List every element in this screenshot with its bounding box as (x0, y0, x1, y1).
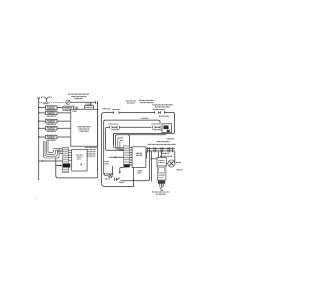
harness wire W3 (118, 138, 123, 148)
wire harness U4 (48, 141, 54, 153)
LEFT SECTION: surface unit wiring (38, 94, 98, 180)
label box A (63, 106, 74, 110)
infinite switch S4 row (38, 126, 71, 131)
wire connector band to fan (112, 166, 114, 175)
arrow into ground bar (56, 165, 63, 167)
wire bottom run to door lock (121, 180, 148, 182)
infinite switch S1 row (38, 106, 63, 111)
relay contact K2 (row1 right) (153, 110, 169, 117)
supply arrow L1 (38, 97, 40, 99)
relay coil box (dark) (162, 124, 172, 133)
door lock dark contacts (158, 180, 165, 183)
left drop wires to door lock (148, 151, 152, 181)
wire harness U1 (44, 141, 60, 158)
wire lamp feed (39, 101, 66, 103)
wire harness U2 (45, 141, 57, 156)
pin label text above connector row (148, 139, 177, 145)
latch switch contacts bottom (160, 184, 163, 191)
oven unit box B2 (72, 150, 87, 171)
relay contact K3 (row2 left) (109, 124, 120, 130)
wire right rail (97, 102, 99, 176)
connector row wires (146, 149, 175, 151)
connector black band (124, 165, 130, 168)
electronic oven control EOC (132, 147, 146, 168)
wire EOC bottom drop (133, 167, 134, 186)
fan motor M2 (104, 173, 113, 179)
infinite switch S2 row (38, 111, 71, 116)
connector strip P1 (124, 146, 130, 165)
connector row plug ticks (148, 147, 173, 152)
wire row2 loop (106, 127, 163, 150)
door lock lower block (157, 166, 182, 180)
title text right section B (139, 100, 154, 102)
wire row1b to relay coil (103, 109, 161, 173)
relay contact K4 (row2 right) (152, 124, 163, 130)
wire left rail (38, 99, 40, 180)
arrow feed wire into connector (109, 156, 124, 158)
RIGHT SECTION: oven wiring (35, 100, 182, 199)
harness corner wires into strip (113, 146, 123, 151)
wire harness U3 (47, 141, 56, 154)
text above motor (160, 155, 172, 157)
title text right section C (153, 105, 174, 107)
wire motor to box (166, 163, 168, 165)
wire lamp to plug (70, 101, 95, 103)
wire rail to fan (104, 173, 108, 175)
wire below connector with arrow (119, 168, 124, 174)
infinite switch S5 row (38, 135, 71, 140)
strip to B2 pin ticks (68, 150, 71, 160)
wire drop to thermal box (90, 102, 92, 105)
text between label boxes (75, 107, 79, 108)
wire label table (87, 150, 95, 157)
caption door lock assembly (152, 192, 170, 194)
wire right drop to motor (174, 151, 176, 163)
door lock upper box (157, 158, 166, 167)
harness wire W1 to right edge (113, 133, 115, 146)
surface unit switch block (71, 109, 98, 147)
text left mid labels (105, 162, 110, 164)
wire bottom loop (56, 158, 98, 178)
terminal strip TB1 (63, 147, 69, 172)
EOC pins (130, 148, 132, 166)
door switch contact (115, 178, 124, 183)
plug connector ticks (96, 101, 98, 104)
relay contact K1 (row1 left) (113, 110, 121, 114)
speck (35, 198, 36, 199)
title text right section A (126, 101, 137, 103)
wire rail to strip (39, 160, 63, 161)
text below connector row (161, 152, 169, 154)
harness wire W4 (120, 140, 123, 149)
wires connector row to door lock box (147, 151, 162, 158)
indicator lamp PL1 (66, 100, 70, 104)
thermal fuse box B (85, 104, 94, 109)
harness wire W2 long (116, 135, 166, 146)
supply arrow L2 (41, 97, 52, 103)
wire outer loop row1 + left rail + bottom border (101, 112, 174, 186)
ground bar (black band) (63, 164, 71, 168)
title text left section (68, 94, 89, 98)
text below EOC (138, 171, 143, 173)
door lock box top stub (151, 158, 158, 160)
infinite switch S3 row (38, 119, 71, 124)
door lock motor M1 (168, 160, 181, 167)
harness to terminal strip wires (54, 149, 63, 154)
